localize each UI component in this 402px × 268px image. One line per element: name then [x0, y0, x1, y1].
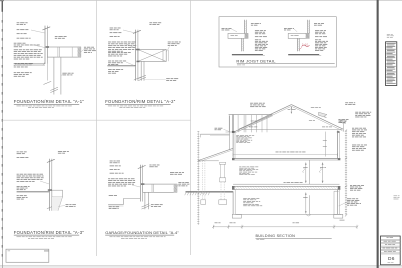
svg-text:FOUNDATION/RIM DETAIL "A-1": FOUNDATION/RIM DETAIL "A-1"	[14, 99, 85, 104]
building section grade line	[185, 191, 234, 195]
legend box bottom-left	[6, 249, 49, 262]
bottom sheet border line	[0, 266, 402, 268]
building section top-of-plate dimension	[233, 152, 337, 156]
building section right dimension string	[345, 129, 347, 216]
building section cross-wing left wall	[229, 116, 231, 150]
building section porch pier footings	[201, 161, 227, 205]
detail A-1 top-right sheathing text	[55, 36, 67, 39]
rim joist detail title	[236, 58, 334, 65]
detail A-4 sill gasket note	[148, 204, 162, 206]
rim joist mini-detail 2 (right, offset rim)	[284, 20, 328, 56]
svg-text:BUILDING SECTION: BUILDING SECTION	[256, 234, 296, 238]
rim joist mini-detail 1 (left)	[222, 20, 268, 56]
building section ceiling line	[226, 120, 343, 132]
building section porch post	[220, 162, 226, 200]
building section first storey room note block	[239, 167, 258, 175]
building section left dimension string	[170, 131, 199, 225]
vertical separator between details and building section	[190, 0, 192, 255]
left sheet edge strip with rotated text marks	[2, 0, 3, 268]
detail A-1 rim insulation note (right)	[81, 47, 96, 53]
building section attic ridge height dimension	[291, 107, 293, 114]
detail A-4 conc slab note	[109, 206, 119, 208]
building section second storey room note block	[236, 135, 254, 142]
building section bottom dimension line	[212, 220, 358, 229]
building section right eave bracket	[340, 120, 347, 129]
detail A-2 wall studs	[133, 30, 142, 81]
building section upper room height dimensions	[303, 163, 326, 184]
detail A-4 floor joist box	[141, 183, 177, 192]
building section upper room interior wall	[308, 160, 310, 184]
detail A-1 wall studs (double line)	[42, 26, 51, 85]
detail A-4 left note texts	[110, 161, 124, 174]
detail A-1 floor joist box	[46, 46, 81, 57]
detail A-3 plate note	[17, 186, 30, 190]
detail A-4 joist note (right)	[177, 182, 190, 187]
right strip general notes box	[386, 42, 397, 86]
building section second storey walls	[232, 131, 340, 159]
building section second storey interior line	[323, 132, 327, 157]
detail A-2 insulation note (right)	[166, 42, 181, 52]
building section foundation walls	[233, 190, 339, 215]
detail A-1 sill gasket note	[61, 73, 74, 76]
building section lower room height dimension	[303, 193, 307, 214]
building section gable-end wall studs (left wing)	[229, 115, 273, 133]
building section right-margin note blocks	[350, 128, 367, 191]
detail A-4 garage step outline	[108, 199, 140, 207]
detail A-3 lower-left note	[17, 195, 28, 199]
building section lower room interior wall	[308, 195, 310, 214]
right title-strip divider bar	[377, 0, 379, 268]
svg-text:FOUNDATION/RIM DETAIL "A-2": FOUNDATION/RIM DETAIL "A-2"	[105, 99, 176, 104]
building section roof gable	[239, 105, 343, 132]
red markup annotation on mini-detail 2	[299, 45, 309, 50]
detail A-1 leader lines	[31, 30, 45, 66]
right strip mid small text	[394, 196, 400, 200]
vertical separator between detail A-1 and A-2 columns	[96, 0, 98, 256]
detail A-2 sill gasket note	[144, 78, 178, 81]
svg-text:FOUNDATION/RIM DETAIL "A-3": FOUNDATION/RIM DETAIL "A-3"	[14, 230, 85, 235]
building section left eave note	[215, 128, 230, 132]
right strip small header text	[387, 34, 394, 38]
building section right-margin eave notes	[338, 102, 371, 123]
detail A-4 mid-left note block	[108, 178, 140, 187]
building section upper room break symbols	[303, 168, 321, 173]
detail A-4 grade text	[109, 194, 117, 197]
detail A-3 grade line	[17, 191, 50, 192]
detail A-2 grade line	[107, 65, 135, 66]
detail A-1 left note texts	[14, 22, 43, 76]
building section porch roof	[198, 148, 233, 162]
detail A-4 wall studs	[138, 165, 146, 202]
horizontal separator between detail rows	[2, 119, 190, 121]
detail A-3 top-left note texts	[17, 152, 29, 158]
detail A-4 foundation footing	[142, 192, 150, 209]
svg-text:GARAGE/FOUNDATION DETAIL "A-: GARAGE/FOUNDATION DETAIL "A-4"	[105, 230, 179, 235]
title detail A-2	[105, 99, 176, 108]
detail A-2 top-right sheathing text	[149, 22, 161, 25]
building section second floor band	[232, 158, 340, 160]
building section ridge text	[288, 108, 296, 111]
svg-text:RIM JOIST DETAIL: RIM JOIST DETAIL	[236, 58, 276, 63]
building section footings	[232, 214, 342, 218]
detail A-2 leader lines	[123, 30, 135, 66]
svg-text:D6: D6	[388, 256, 395, 262]
building section basement room note block	[243, 198, 262, 206]
title detail A-4	[105, 230, 179, 239]
building section ridge callout notes	[250, 103, 266, 107]
svg-text:2x10: 2x10	[302, 45, 309, 47]
building section right side step notes	[339, 198, 361, 206]
detail A-3 wall studs	[47, 159, 55, 211]
detail A-2 left note texts	[108, 28, 137, 74]
sheet title block box	[381, 236, 401, 265]
building section roof pitch flag (right)	[311, 107, 327, 117]
building section title	[256, 234, 332, 240]
detail A-1 foundation wall below	[47, 57, 61, 94]
detail A-3 mid-left note block	[17, 174, 50, 184]
detail A-3 slab and footing	[48, 189, 63, 210]
building section cross-wing eave soffit line	[200, 134, 229, 137]
top sheet border line	[0, 0, 402, 2]
title detail A-1	[14, 99, 85, 108]
detail A-3 top-right note text	[58, 151, 69, 154]
rim joist detail enclosure box	[219, 17, 336, 67]
detail A-1 grade line	[15, 64, 45, 65]
detail A-2 foundation wall below	[138, 61, 146, 80]
title detail A-3	[14, 230, 85, 239]
building section cross-wing roof line	[233, 115, 273, 133]
detail A-2 cross-braced floor joist box	[136, 49, 168, 63]
detail A-3 conc slab note (right)	[58, 204, 76, 206]
detail A-4 top-right sheathing text	[149, 165, 159, 168]
building section first floor band	[232, 182, 340, 190]
building section basement slab	[235, 215, 341, 217]
